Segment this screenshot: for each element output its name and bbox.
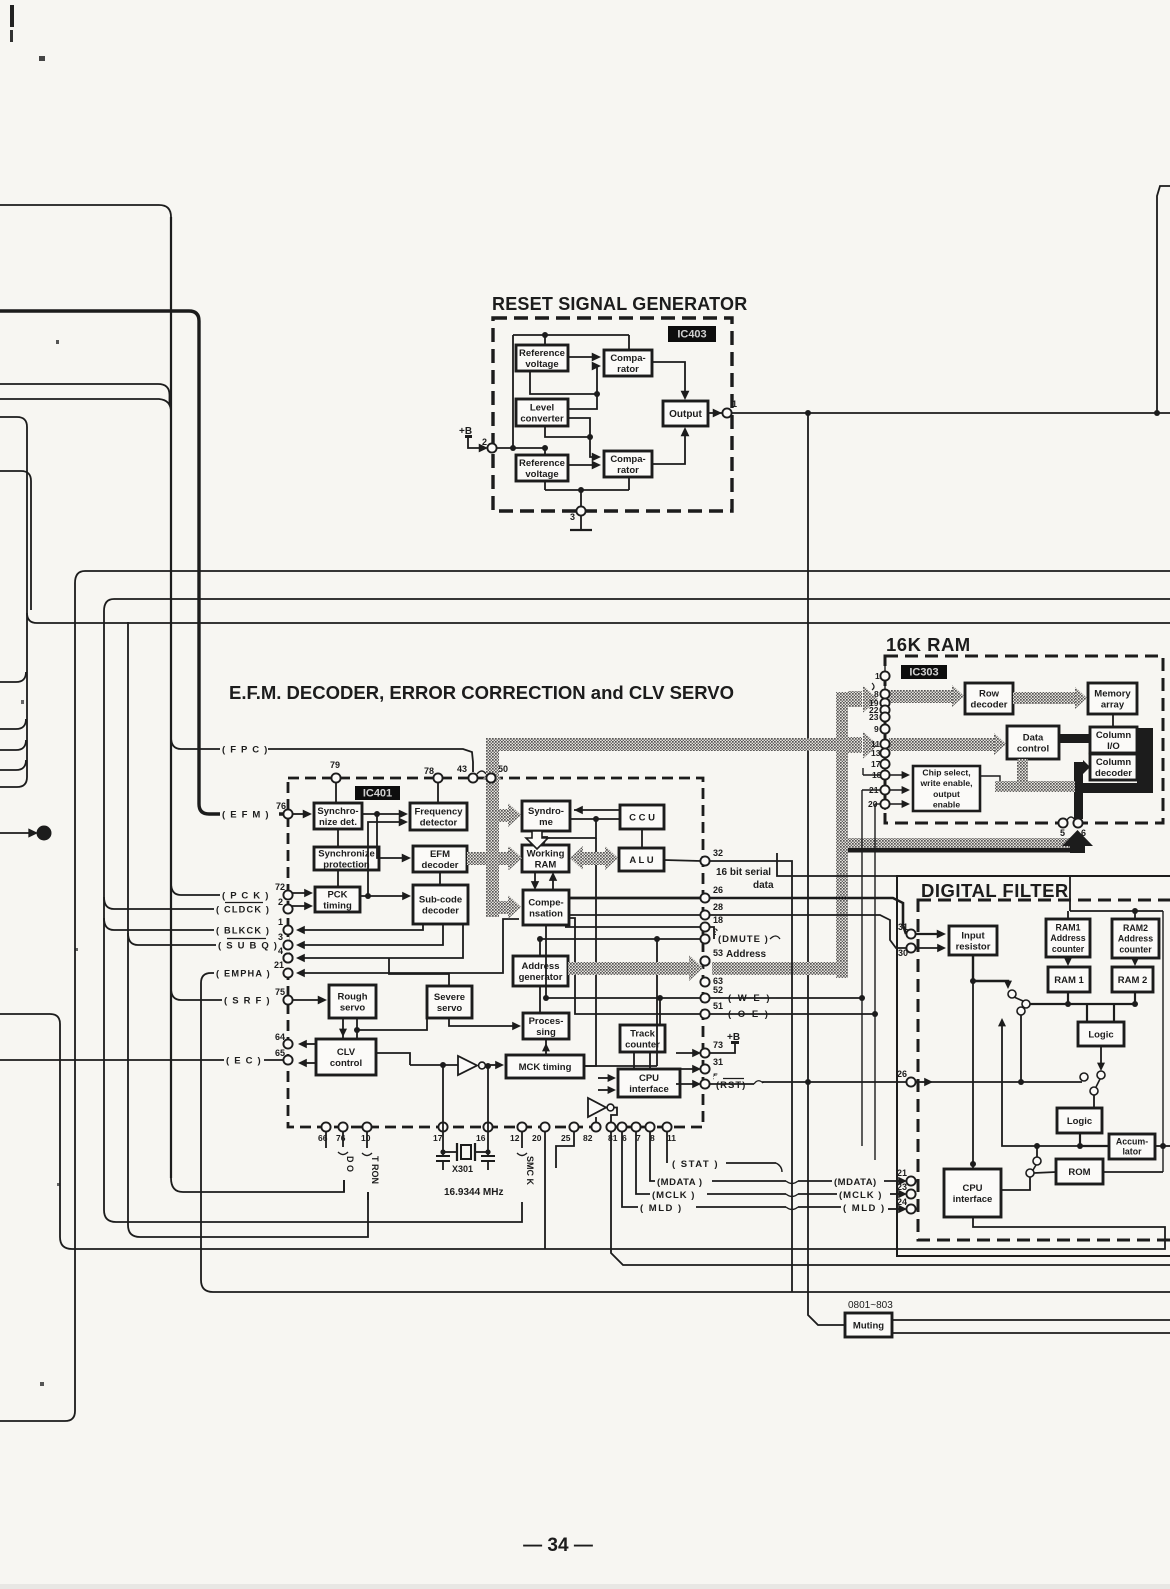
net label FPC bbox=[220, 741, 279, 757]
svg-text:Column: Column bbox=[1096, 757, 1132, 768]
svg-text:output: output bbox=[933, 789, 960, 799]
wire track counter to cpu interface a bbox=[633, 1052, 635, 1069]
wire MCLK into DF pin23 bbox=[890, 1193, 903, 1195]
svg-text:50: 50 bbox=[498, 764, 508, 774]
block RAM2 address counter bbox=[1112, 919, 1159, 958]
svg-text:82: 82 bbox=[583, 1133, 593, 1143]
wire pin3 to ground bbox=[580, 515, 582, 530]
pin 24 DF bbox=[897, 1197, 916, 1214]
wire RAM pin column bbox=[884, 662, 886, 810]
grey bus pins to data control bbox=[889, 738, 994, 751]
wire subcode output pin1 bbox=[300, 924, 423, 930]
wire long y571 from x75 to right edge bbox=[75, 571, 1170, 583]
black bus bottom horizontal bbox=[1075, 783, 1153, 793]
svg-text:EFM: EFM bbox=[430, 849, 450, 860]
svg-text:( P C K ): ( P C K ) bbox=[222, 890, 270, 901]
chip label IC403 bbox=[668, 326, 716, 342]
block Frequency detector bbox=[410, 803, 467, 830]
dashed box IC303 16K RAM bbox=[885, 656, 1163, 823]
pin 20 bottom bbox=[540, 1122, 549, 1131]
net label SUBQ bbox=[216, 937, 289, 953]
wire rail into logic upper left bbox=[1086, 1004, 1088, 1022]
grey address bus right of pin 53 bbox=[712, 962, 837, 975]
svg-text:Frequency: Frequency bbox=[414, 806, 463, 817]
svg-text:DIGITAL FILTER: DIGITAL FILTER bbox=[921, 880, 1069, 901]
svg-text:Synchro-: Synchro- bbox=[317, 806, 358, 817]
svg-text:CPU: CPU bbox=[962, 1183, 982, 1194]
wire left stub y471 bbox=[0, 471, 31, 610]
net label PCK bbox=[220, 887, 279, 903]
dashed box IC403 reset generator bbox=[493, 318, 732, 511]
svg-text:protection: protection bbox=[323, 859, 370, 870]
inverter gate 2 above pin 82 bbox=[588, 1098, 606, 1117]
wire vertical x104 bbox=[104, 611, 522, 1222]
wire from left edge y205 to trunk x171 bbox=[0, 205, 171, 217]
block Accumulator bbox=[1109, 1134, 1155, 1159]
junction WE RAM bbox=[859, 995, 865, 1001]
svg-text:1: 1 bbox=[875, 671, 880, 681]
svg-text:16: 16 bbox=[476, 1133, 486, 1143]
pin 31 bbox=[700, 1057, 723, 1074]
svg-text:sing: sing bbox=[536, 1027, 556, 1038]
svg-text:RAM 1: RAM 1 bbox=[1054, 975, 1084, 986]
wire EMPHA vertical x200 bbox=[201, 973, 1170, 1292]
block Data control bbox=[1007, 726, 1059, 759]
wire ram2 counter top feed bbox=[1134, 911, 1136, 919]
wire levelconv bottom rail bbox=[545, 426, 590, 437]
pin 8 bottom bbox=[645, 1122, 654, 1131]
svg-text:76: 76 bbox=[276, 801, 286, 811]
pin 22 IC303 bbox=[880, 705, 889, 714]
arrowhead into comparator1 b bbox=[592, 362, 601, 371]
svg-text:Logic: Logic bbox=[1067, 1116, 1092, 1127]
svg-text:Working: Working bbox=[527, 848, 565, 859]
wire ram1 bottom bbox=[1067, 992, 1069, 1004]
wire switch3 down to pin26 line bbox=[1020, 1015, 1022, 1082]
wire pin30 into input resistor bbox=[915, 947, 941, 949]
wire cpu interface top bbox=[972, 1164, 974, 1169]
bracket DO bbox=[338, 1152, 348, 1155]
svg-text:20: 20 bbox=[532, 1133, 542, 1143]
wire pin 10 to TRON bbox=[366, 1131, 368, 1148]
svg-text:Address: Address bbox=[726, 949, 766, 960]
wire vertical x657 dmute to mck bbox=[656, 939, 658, 1066]
svg-text:26: 26 bbox=[897, 1069, 907, 1079]
wire rough servo to clv a bbox=[342, 1018, 344, 1039]
grey double arrow working ram alu bbox=[583, 852, 606, 865]
block Rough servo bbox=[329, 985, 376, 1018]
block Comparator lower bbox=[604, 451, 652, 477]
pin 20 IC303 bbox=[880, 799, 889, 808]
svg-text:control: control bbox=[330, 1058, 362, 1069]
block ROM bbox=[1056, 1159, 1103, 1184]
pin 2 IC403 bbox=[482, 437, 497, 453]
wire severe servo top link bbox=[389, 958, 449, 986]
junction x368 y896 bbox=[365, 893, 371, 899]
wire syndrome ccu lower bbox=[570, 818, 620, 820]
junction input resistor bbox=[970, 978, 976, 984]
wire pin32 line corner down x792 bbox=[709, 861, 792, 1292]
block Processing bbox=[523, 1013, 569, 1039]
junction pin2 rail a bbox=[510, 445, 516, 451]
wire MLD across with jog bbox=[696, 1206, 786, 1208]
scan mark top-left bbox=[10, 5, 14, 27]
svg-text:me: me bbox=[539, 817, 553, 828]
black bus data control to column io bbox=[1059, 734, 1090, 743]
svg-text:26: 26 bbox=[713, 885, 723, 895]
grey bus row decoder to memory array bbox=[1013, 692, 1076, 704]
wire WE down from RAM pin21 bbox=[862, 789, 880, 791]
svg-text:Compa-: Compa- bbox=[610, 454, 645, 465]
svg-text:Accum-: Accum- bbox=[1116, 1136, 1148, 1146]
wire comparator2 bottom feed bbox=[628, 477, 630, 490]
svg-text:decoder: decoder bbox=[422, 860, 459, 871]
pin 8 IC303 bbox=[880, 689, 889, 698]
net label EFM bbox=[220, 806, 279, 822]
svg-text:65: 65 bbox=[275, 1048, 285, 1058]
wire subcode output pin3 bbox=[300, 924, 443, 945]
pin 21 IC303 bbox=[880, 785, 889, 794]
wire reset output net y413 bbox=[731, 412, 1170, 414]
svg-text:( S R F ): ( S R F ) bbox=[224, 995, 271, 1006]
svg-text:3: 3 bbox=[278, 932, 283, 942]
svg-text:generator: generator bbox=[519, 972, 563, 983]
wire reset top rail bbox=[513, 334, 629, 336]
junction WE corner bbox=[543, 995, 549, 1001]
scan speck bbox=[40, 1382, 44, 1386]
grey bus horizontal y844 data to DAC bbox=[848, 838, 1072, 848]
wire pin 81 down to long line y1265 bbox=[611, 1131, 1170, 1265]
svg-text:Address: Address bbox=[1118, 934, 1153, 944]
svg-text:32: 32 bbox=[713, 848, 723, 858]
switch 1 contacts bbox=[1008, 990, 1016, 998]
block CCU bbox=[620, 805, 664, 829]
pin 9 DMUTE bbox=[700, 927, 718, 944]
grey arrow up into bus at pin 50 bbox=[483, 763, 501, 779]
wire pin 20 into chip select bbox=[889, 803, 906, 805]
wire comparator1 top feed bbox=[628, 335, 630, 350]
wire pin 6 to MLD bbox=[622, 1131, 639, 1207]
pin 21 DF bbox=[897, 1168, 916, 1186]
block Sub-code decoder bbox=[413, 885, 468, 924]
block Reference voltage lower bbox=[516, 455, 568, 481]
wire pin 25 hook bbox=[556, 1131, 574, 1168]
wire pin82 to inverter2 bbox=[595, 1117, 597, 1123]
svg-text:Syndro-: Syndro- bbox=[528, 806, 564, 817]
svg-text:Chip select,: Chip select, bbox=[922, 768, 970, 778]
wire crystal right top bbox=[487, 1066, 489, 1078]
svg-text:CLV: CLV bbox=[337, 1047, 356, 1058]
wire reset bottom rail bbox=[545, 489, 629, 491]
svg-text:( E F M ): ( E F M ) bbox=[222, 809, 270, 820]
wire trunk vertical x27 bbox=[0, 427, 27, 787]
wire pin32 serial data from ALU bbox=[664, 860, 701, 861]
wire serial data y876 branch bbox=[777, 853, 1070, 911]
wire stub into cpu interface b bbox=[598, 1089, 612, 1091]
wire rom switch bbox=[1033, 1157, 1041, 1165]
svg-text:— 34 —: — 34 — bbox=[523, 1535, 593, 1556]
wire refv1 feedback rail bbox=[530, 371, 597, 394]
pin 26 DF bbox=[897, 1069, 916, 1087]
bracket SMCK bbox=[517, 1153, 527, 1156]
wire RAM address counters top rail bbox=[1070, 910, 1163, 912]
junction top rail ram2 bbox=[1132, 908, 1138, 914]
wire WE net to RAM pin21 line bbox=[709, 997, 862, 999]
svg-text:decoder: decoder bbox=[1095, 768, 1132, 779]
vertical bus wire x596 bbox=[584, 838, 596, 1066]
wire left stub y750 bbox=[0, 740, 26, 750]
capacitor right of crystal bbox=[487, 1152, 489, 1156]
wire working ram to compensation a bbox=[534, 872, 536, 886]
wire branch DO bottom of trunk bbox=[171, 1178, 344, 1192]
svg-text:Input: Input bbox=[961, 930, 985, 941]
svg-text:Address: Address bbox=[1050, 933, 1085, 943]
pin 23 IC303 bbox=[880, 712, 889, 721]
block Synchronize protection bbox=[314, 847, 379, 870]
svg-text:IC401: IC401 bbox=[363, 788, 392, 800]
block PCK timing bbox=[315, 887, 360, 912]
pin 5 RST bbox=[700, 1072, 718, 1089]
junction x1021 bbox=[1018, 1079, 1024, 1085]
wire arrow into pin 5 bbox=[676, 1083, 697, 1085]
wire arrow into node from left edge bbox=[0, 832, 30, 834]
svg-text:( BLKCK ): ( BLKCK ) bbox=[216, 925, 270, 935]
block Muting bbox=[845, 1313, 892, 1337]
pin 82 bottom bbox=[591, 1122, 600, 1131]
svg-text:interface: interface bbox=[953, 1194, 993, 1205]
block CLV control bbox=[316, 1039, 376, 1075]
wire compensation to pin28 bbox=[569, 914, 701, 916]
wire ram2 bottom bbox=[1134, 992, 1136, 1004]
pin 17 bottom bbox=[438, 1122, 447, 1131]
wire mck right link bbox=[584, 1065, 657, 1067]
pin 1 IC303 bbox=[880, 671, 889, 680]
svg-text:21: 21 bbox=[274, 960, 284, 970]
wire rom left bbox=[1034, 1172, 1056, 1173]
switch rom arm bbox=[1033, 1165, 1036, 1170]
pin 16 bottom bbox=[483, 1122, 492, 1131]
svg-text:(MDATA): (MDATA) bbox=[834, 1177, 877, 1188]
wire inverter input line bbox=[410, 1064, 458, 1066]
wire reset output up right edge bbox=[1157, 186, 1170, 413]
pin 17 IC303 bbox=[880, 759, 889, 768]
junction crystal right top bbox=[485, 1063, 491, 1069]
black bus down to pin 6 bbox=[1074, 783, 1083, 819]
wire MLD into DF pin24 bbox=[888, 1208, 903, 1210]
net label DMUTE bbox=[716, 931, 768, 946]
net label MDATA right bbox=[832, 1174, 883, 1188]
wire EC bracket to pin bbox=[264, 1059, 284, 1061]
svg-text:Muting: Muting bbox=[853, 1320, 884, 1331]
black arrow up into pin 6 bbox=[1062, 830, 1093, 853]
svg-text:enable: enable bbox=[933, 799, 960, 809]
junction feedback x590 bbox=[587, 434, 593, 440]
wire logic lower to accumulator bbox=[1080, 1145, 1109, 1147]
grey bus EFM vertical inside IC401 bbox=[486, 738, 499, 917]
wire pck timing to subcode decoder bbox=[360, 895, 407, 897]
wire serial data 26 to DF pin31 thick bbox=[709, 898, 906, 934]
svg-text:Reference: Reference bbox=[519, 458, 565, 469]
wire inverter2 out to pin81 bbox=[611, 1108, 617, 1124]
svg-text:16K RAM: 16K RAM bbox=[886, 634, 971, 655]
scan mark bbox=[39, 56, 45, 61]
wire pin 76 to DO bbox=[342, 1131, 344, 1147]
wire pin 18 into chip select bbox=[889, 774, 906, 776]
wire RST to DF pin 26 bbox=[709, 1083, 754, 1085]
wire pin2 rail bbox=[497, 447, 545, 449]
wire from left edge y384 bbox=[0, 384, 170, 405]
wire branch BLKCK from x104 bbox=[104, 918, 262, 930]
wire reset line down x808 bbox=[808, 413, 845, 1325]
block Logic lower bbox=[1057, 1108, 1102, 1133]
pin 19 IC303 bbox=[880, 698, 889, 707]
wire pin 20 down to long line bbox=[544, 1131, 546, 1249]
pin 4 bbox=[278, 946, 293, 963]
junction x540 y939 bbox=[537, 936, 543, 942]
svg-text:Memory: Memory bbox=[1094, 688, 1131, 699]
black bus arrow into column decoder bbox=[1074, 762, 1083, 790]
pin 76 EFM input bbox=[276, 801, 293, 819]
net label WE bbox=[726, 990, 776, 1005]
block Working RAM bbox=[522, 845, 569, 872]
pin 75 SRF bbox=[275, 987, 293, 1005]
wire muting output upper bbox=[892, 1319, 1170, 1321]
svg-text:18: 18 bbox=[713, 915, 723, 925]
svg-text:Compa-: Compa- bbox=[610, 353, 645, 364]
wire STAT tail bbox=[726, 1162, 776, 1164]
svg-text:23: 23 bbox=[869, 712, 879, 722]
inverter gate 1 bbox=[458, 1056, 477, 1075]
pin 81 bottom bbox=[606, 1122, 615, 1131]
block Compensation bbox=[523, 890, 569, 925]
wire branch CLDCK from x104 bbox=[104, 897, 262, 909]
wire left stub y682 bbox=[0, 672, 26, 682]
pin 6 IC303 bbox=[1073, 818, 1086, 838]
block CPU interface IC401 bbox=[618, 1069, 680, 1097]
solid outer board box around digital filter bbox=[897, 876, 1170, 1256]
svg-text:nsation: nsation bbox=[529, 908, 563, 919]
svg-text:ROM: ROM bbox=[1068, 1167, 1090, 1178]
net label BLKCK bbox=[214, 922, 271, 938]
svg-text:( CLDCK ): ( CLDCK ) bbox=[216, 904, 270, 914]
wire branch SUBQ from x128 bbox=[128, 933, 264, 945]
svg-text:4: 4 bbox=[278, 946, 283, 956]
svg-text:24: 24 bbox=[897, 1197, 907, 1207]
wire ram1 counter top feed bbox=[1067, 911, 1069, 919]
pin 1 IC403 bbox=[722, 399, 737, 418]
svg-text:nize det.: nize det. bbox=[319, 817, 357, 828]
wire branch SRF from trunk bbox=[171, 988, 264, 1000]
wire arrow into pin 73 bbox=[676, 1052, 697, 1054]
net label MCLK right bbox=[837, 1187, 887, 1201]
pin 9 IC303 bbox=[880, 724, 889, 733]
svg-text:1: 1 bbox=[278, 917, 283, 927]
wire left stub y417 to trunk x27 bbox=[0, 417, 27, 427]
grey address bus from address generator bbox=[568, 962, 690, 975]
junction rough servo bbox=[354, 1027, 360, 1033]
wire rough servo to clv b bbox=[356, 1018, 358, 1039]
svg-text:Synchronize: Synchronize bbox=[318, 848, 375, 859]
wire refv1 to comparator1 bbox=[568, 356, 597, 358]
pin 11 bottom bbox=[662, 1122, 671, 1131]
junction reset top rail bbox=[542, 332, 548, 338]
wire left loop vertical x513 bbox=[512, 335, 514, 448]
wire DO down bbox=[343, 1180, 345, 1192]
wire muting output lower bbox=[892, 1332, 1170, 1334]
pin 3 IC403 bbox=[570, 506, 586, 522]
svg-text:counter: counter bbox=[625, 1039, 660, 1050]
block Severe servo bbox=[427, 986, 472, 1018]
svg-text:detector: detector bbox=[420, 817, 458, 828]
grey arrow into compensation bbox=[499, 901, 508, 914]
net label MCLK left bbox=[650, 1187, 704, 1201]
block Comparator upper bbox=[604, 350, 652, 376]
svg-text:10: 10 bbox=[361, 1133, 371, 1143]
svg-text:30: 30 bbox=[898, 948, 908, 958]
node black connector dot bbox=[37, 826, 52, 841]
junction crystal left bbox=[440, 1149, 445, 1154]
wire subcode output pin4 bbox=[300, 924, 463, 958]
junction pin9 line x657 bbox=[654, 936, 660, 942]
squiggle after DMUTE bbox=[770, 936, 780, 939]
arrowhead into comparator2 b bbox=[592, 461, 601, 470]
svg-text:72: 72 bbox=[275, 882, 285, 892]
svg-text:53: 53 bbox=[713, 948, 723, 958]
wire rom right bbox=[1103, 1171, 1163, 1173]
wire ram2 counter to ram2 bbox=[1134, 958, 1136, 963]
svg-text:servo: servo bbox=[340, 1002, 366, 1013]
svg-text:78: 78 bbox=[424, 766, 434, 776]
svg-text:D O: D O bbox=[345, 1156, 355, 1172]
wire pin 17 to crystal bbox=[442, 1065, 444, 1152]
pin 50 redraw on top of bus bbox=[486, 773, 495, 782]
svg-text:I/O: I/O bbox=[1107, 741, 1120, 752]
wire pin9 dmute bbox=[540, 938, 701, 940]
block Memory array bbox=[1088, 683, 1137, 714]
pin 79 bbox=[330, 760, 341, 783]
wire long y599 from x104 to right edge bbox=[104, 599, 1170, 611]
wire pin 8 to MDATA bbox=[650, 1131, 656, 1181]
svg-text:81: 81 bbox=[608, 1133, 618, 1143]
wire pin 11 to STAT bbox=[666, 1131, 668, 1163]
wire sync protection to pck timing bbox=[337, 870, 339, 887]
grey bus horizontal y788 bbox=[995, 781, 1075, 792]
wire input resistor junction down to cpu bbox=[972, 981, 974, 1164]
net label RST with overline bbox=[714, 1076, 754, 1091]
svg-text:79: 79 bbox=[330, 760, 340, 770]
svg-text:21: 21 bbox=[897, 1168, 907, 1178]
capacitor left of crystal bbox=[442, 1152, 444, 1156]
svg-text:RESET SIGNAL GENERATOR: RESET SIGNAL GENERATOR bbox=[492, 294, 747, 314]
grey arrow into RAM data pins bbox=[848, 737, 862, 753]
svg-text:43: 43 bbox=[457, 764, 467, 774]
wire levelconv to comparator2 upper input bbox=[567, 418, 597, 457]
svg-text:Sub-code: Sub-code bbox=[419, 894, 462, 905]
wire pin 66 stub bbox=[325, 1131, 327, 1148]
pin 7 bottom bbox=[631, 1122, 640, 1131]
wire left stub y729 bbox=[0, 719, 26, 729]
wire output to pin1 bbox=[708, 412, 722, 414]
svg-text:6: 6 bbox=[1081, 828, 1086, 838]
grey arrow into RAM address pins bbox=[848, 691, 862, 707]
wire vertical x75 bbox=[0, 583, 75, 1421]
chip label IC303 bbox=[901, 665, 947, 679]
wire addr generator to processing bbox=[539, 986, 541, 1013]
wire MDATA into DF pin21 bbox=[884, 1180, 903, 1182]
block RAM1 bbox=[1048, 967, 1090, 992]
junction ram1 bottom bbox=[1065, 1001, 1071, 1007]
wire levelconv to comparator1 lower input bbox=[567, 366, 597, 409]
